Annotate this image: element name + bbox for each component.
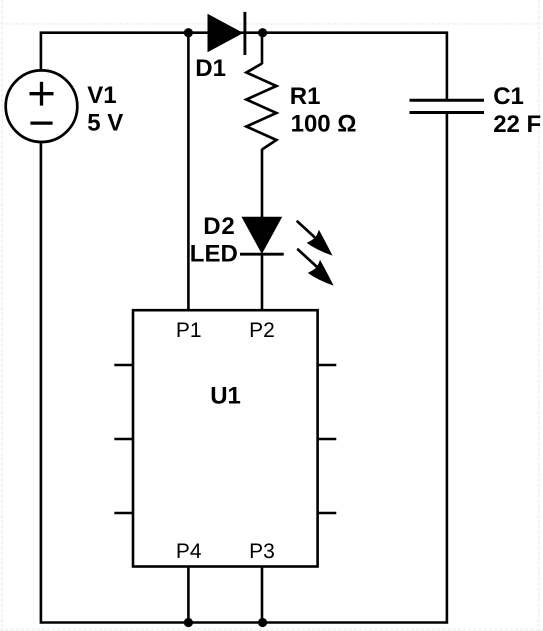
svg-text:22 F: 22 F bbox=[493, 111, 541, 138]
U1 right pin stub 1 bbox=[318, 364, 337, 367]
value 100 Ω bbox=[291, 111, 357, 138]
pin label P3 bbox=[249, 540, 275, 563]
svg-text:V1: V1 bbox=[87, 82, 116, 109]
pin label P2 bbox=[249, 319, 275, 342]
label R1 bbox=[290, 83, 321, 110]
U1 right pin stub 3 bbox=[318, 512, 337, 515]
svg-text:P2: P2 bbox=[249, 319, 275, 342]
resistor R1 zigzag bbox=[246, 64, 276, 150]
svg-text:P4: P4 bbox=[176, 540, 202, 563]
svg-text:C1: C1 bbox=[493, 83, 524, 110]
svg-text:P1: P1 bbox=[176, 319, 202, 342]
svg-text:100 Ω: 100 Ω bbox=[291, 111, 357, 138]
LED D2 cathode bar bbox=[240, 253, 284, 256]
wire from node B down to resistor R1 top bbox=[261, 33, 264, 64]
diode D1 cathode bar bbox=[243, 12, 246, 55]
wire from U1 pin P4 to bottom rail bbox=[187, 567, 190, 623]
wire from U1 pin P3 to bottom rail bbox=[261, 567, 264, 623]
label C1 bbox=[493, 83, 524, 110]
svg-text:5 V: 5 V bbox=[87, 110, 123, 137]
label D1 bbox=[195, 55, 226, 82]
diode D1 triangle bbox=[208, 15, 242, 52]
wire from node A down to U1 pin P1 bbox=[187, 33, 190, 311]
voltage source V1 circle bbox=[6, 70, 78, 142]
wire bottom rail from C1 to V1 with corners bbox=[41, 113, 447, 622]
node A junction dot top left bbox=[184, 28, 193, 37]
capacitor C1 plates bbox=[410, 100, 485, 112]
svg-text:P3: P3 bbox=[249, 540, 275, 563]
op-amp U1 box bbox=[133, 310, 318, 566]
node B junction dot top right bbox=[258, 28, 267, 37]
U1 left pin stub 3 bbox=[114, 512, 133, 515]
svg-text:R1: R1 bbox=[290, 83, 321, 110]
wire from resistor R1 bottom to LED D2 anode bbox=[261, 149, 264, 219]
LED D2 emission arrow upper bbox=[298, 222, 333, 256]
label V1 bbox=[87, 82, 116, 109]
label LED bbox=[190, 240, 238, 267]
junction dot bottom right bbox=[258, 618, 267, 627]
LED D2 triangle bbox=[242, 217, 281, 253]
svg-text:D2: D2 bbox=[203, 213, 235, 240]
label D2 bbox=[203, 213, 235, 240]
U1 left pin stub 2 bbox=[114, 438, 133, 441]
U1 right pin stub 2 bbox=[318, 438, 337, 441]
pin label P4 bbox=[176, 540, 202, 563]
wire from LED D2 cathode to U1 pin P2 bbox=[261, 253, 264, 311]
svg-text:LED: LED bbox=[190, 240, 238, 267]
U1 left pin stub 1 bbox=[114, 364, 133, 367]
pin label P1 bbox=[176, 319, 202, 342]
value 22 F bbox=[493, 111, 541, 138]
svg-text:U1: U1 bbox=[210, 382, 241, 409]
label U1 bbox=[210, 382, 241, 409]
wire top rail from V1 to C1 with corners bbox=[41, 33, 447, 100]
svg-text:D1: D1 bbox=[195, 55, 226, 82]
value 5 V bbox=[87, 110, 123, 137]
junction dot bottom left bbox=[184, 618, 193, 627]
LED D2 emission arrow lower bbox=[298, 250, 334, 286]
